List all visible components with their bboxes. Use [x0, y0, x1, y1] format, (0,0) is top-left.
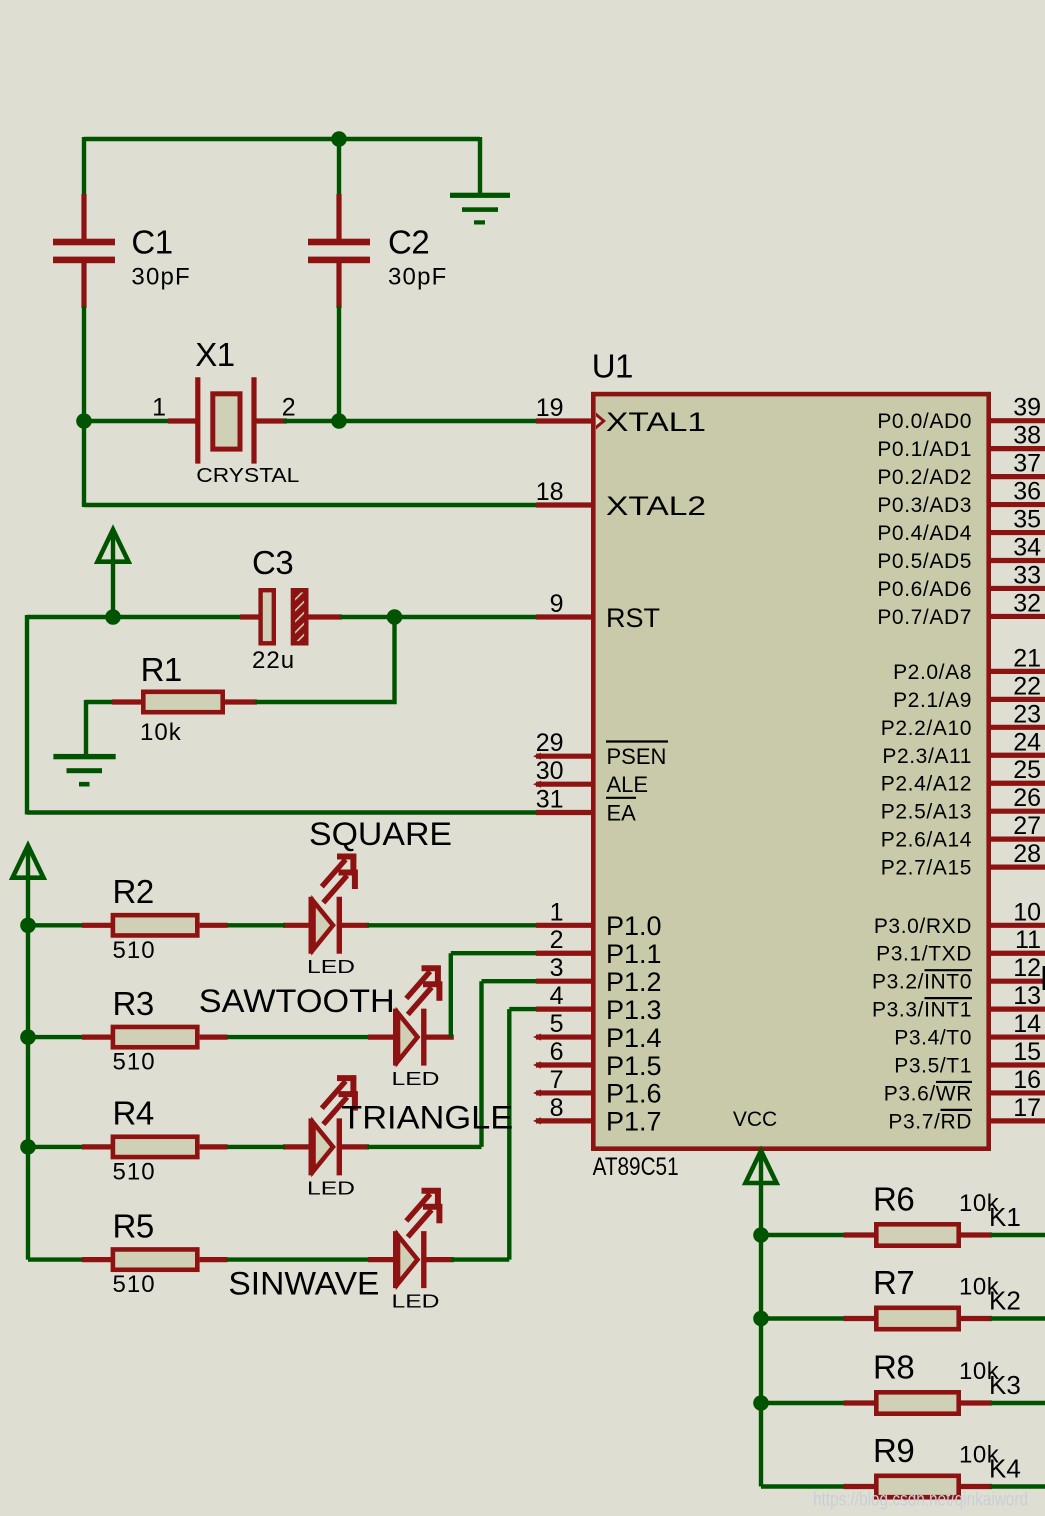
svg-text:P2.2/A10: P2.2/A10 — [881, 717, 972, 740]
svg-text:P0.5/AD5: P0.5/AD5 — [877, 550, 972, 573]
svg-text:14: 14 — [1013, 1010, 1041, 1038]
svg-text:P0.3/AD3: P0.3/AD3 — [877, 494, 972, 517]
svg-text:510: 510 — [113, 1049, 156, 1076]
svg-text:X1: X1 — [195, 336, 234, 373]
svg-text:35: 35 — [1013, 506, 1041, 534]
svg-text:P2.1/A9: P2.1/A9 — [893, 689, 972, 712]
svg-text:2: 2 — [550, 926, 564, 954]
svg-text:CRYSTAL: CRYSTAL — [196, 465, 299, 487]
svg-text:P1.2: P1.2 — [606, 967, 662, 997]
svg-text:XTAL1: XTAL1 — [606, 407, 706, 437]
svg-text:LED: LED — [307, 957, 355, 977]
svg-text:25: 25 — [1013, 756, 1041, 784]
svg-text:SQUARE: SQUARE — [309, 816, 452, 852]
svg-text:P3.3/INT1: P3.3/INT1 — [872, 999, 972, 1022]
svg-text:P0.1/AD1: P0.1/AD1 — [877, 438, 972, 461]
svg-text:P3.1/TXD: P3.1/TXD — [876, 943, 972, 966]
svg-text:SAWTOOTH: SAWTOOTH — [199, 983, 395, 1019]
svg-text:R4: R4 — [113, 1095, 154, 1132]
svg-text:23: 23 — [1013, 700, 1041, 728]
svg-text:27: 27 — [1013, 812, 1041, 840]
svg-text:R5: R5 — [113, 1207, 154, 1244]
svg-text:9: 9 — [550, 590, 564, 618]
svg-text:SINWAVE: SINWAVE — [228, 1266, 379, 1302]
svg-text:37: 37 — [1013, 450, 1041, 478]
svg-text:1: 1 — [152, 393, 166, 421]
svg-text:P3.0/RXD: P3.0/RXD — [874, 915, 972, 938]
svg-text:33: 33 — [1013, 561, 1041, 589]
svg-text:19: 19 — [536, 394, 564, 422]
svg-text:31: 31 — [536, 786, 564, 814]
svg-text:TRIANGLE: TRIANGLE — [341, 1100, 513, 1136]
svg-text:38: 38 — [1013, 422, 1041, 450]
svg-text:P1.7: P1.7 — [606, 1107, 662, 1137]
svg-text:P0.0/AD0: P0.0/AD0 — [877, 410, 972, 433]
svg-text:36: 36 — [1013, 478, 1041, 506]
svg-text:P2.5/A13: P2.5/A13 — [881, 801, 972, 824]
svg-text:P1.6: P1.6 — [606, 1079, 662, 1109]
svg-text:P1.5: P1.5 — [606, 1051, 662, 1081]
svg-text:https://blog.csdn.net/qinkaiwo: https://blog.csdn.net/qinkaiword — [813, 1490, 1028, 1511]
svg-text:P3.5/T1: P3.5/T1 — [894, 1055, 972, 1078]
svg-text:P2.7/A15: P2.7/A15 — [881, 857, 972, 880]
svg-text:7: 7 — [550, 1066, 564, 1094]
svg-text:P3.6/WR: P3.6/WR — [884, 1082, 972, 1105]
svg-text:K1: K1 — [989, 1202, 1021, 1232]
svg-text:P1.1: P1.1 — [606, 939, 662, 969]
svg-text:P1.0: P1.0 — [606, 911, 662, 941]
svg-text:ALE: ALE — [607, 772, 649, 797]
svg-text:39: 39 — [1013, 394, 1041, 422]
svg-text:16: 16 — [1013, 1066, 1041, 1094]
svg-text:C2: C2 — [388, 224, 429, 261]
svg-text:28: 28 — [1013, 840, 1041, 868]
svg-text:AT89C51: AT89C51 — [593, 1153, 679, 1181]
svg-text:C3: C3 — [252, 544, 293, 581]
svg-text:510: 510 — [113, 937, 156, 964]
svg-text:P1.3: P1.3 — [606, 995, 662, 1025]
svg-text:R1: R1 — [141, 651, 182, 688]
svg-text:P2.4/A12: P2.4/A12 — [881, 773, 972, 796]
svg-text:12: 12 — [1013, 954, 1041, 982]
svg-text:C1: C1 — [131, 224, 172, 261]
svg-text:P0.7/AD7: P0.7/AD7 — [877, 606, 972, 629]
svg-text:17: 17 — [1013, 1094, 1041, 1122]
svg-text:R9: R9 — [873, 1432, 914, 1469]
svg-text:P1.4: P1.4 — [606, 1023, 662, 1053]
svg-text:4: 4 — [550, 982, 564, 1010]
svg-text:VCC: VCC — [733, 1108, 777, 1131]
svg-text:LED: LED — [307, 1179, 355, 1199]
svg-text:30pF: 30pF — [388, 263, 448, 290]
svg-text:P0.6/AD6: P0.6/AD6 — [877, 578, 972, 601]
svg-text:PSEN: PSEN — [607, 744, 667, 769]
svg-text:22u: 22u — [252, 647, 295, 674]
svg-text:1: 1 — [550, 898, 564, 926]
svg-text:32: 32 — [1013, 589, 1041, 617]
svg-text:30: 30 — [536, 757, 564, 785]
svg-text:R2: R2 — [113, 873, 154, 910]
svg-text:K4: K4 — [989, 1454, 1021, 1484]
svg-text:22: 22 — [1013, 672, 1041, 700]
svg-text:P2.6/A14: P2.6/A14 — [881, 829, 972, 852]
svg-text:LED: LED — [392, 1069, 440, 1089]
svg-text:P2.3/A11: P2.3/A11 — [882, 745, 972, 768]
svg-text:RST: RST — [606, 603, 660, 633]
svg-text:K3: K3 — [989, 1370, 1021, 1400]
svg-text:30pF: 30pF — [131, 263, 191, 290]
svg-text:13: 13 — [1013, 982, 1041, 1010]
svg-text:18: 18 — [536, 478, 564, 506]
svg-text:P3.4/T0: P3.4/T0 — [894, 1027, 972, 1050]
svg-text:P3.7/RD: P3.7/RD — [888, 1110, 972, 1133]
svg-text:XTAL2: XTAL2 — [606, 491, 706, 521]
svg-text:R8: R8 — [873, 1349, 914, 1386]
svg-text:P3.2/INT0: P3.2/INT0 — [872, 971, 972, 994]
svg-text:8: 8 — [550, 1094, 564, 1122]
svg-text:R3: R3 — [113, 985, 154, 1022]
svg-text:P0.2/AD2: P0.2/AD2 — [877, 466, 972, 489]
svg-text:P0.4/AD4: P0.4/AD4 — [877, 522, 972, 545]
svg-text:R7: R7 — [873, 1264, 914, 1301]
svg-text:10: 10 — [1013, 898, 1041, 926]
svg-text:21: 21 — [1013, 644, 1041, 672]
svg-text:34: 34 — [1013, 534, 1041, 562]
svg-text:LED: LED — [392, 1292, 440, 1312]
svg-text:2: 2 — [282, 393, 296, 421]
svg-text:U1: U1 — [592, 348, 633, 385]
svg-text:15: 15 — [1013, 1038, 1041, 1066]
svg-text:510: 510 — [113, 1271, 156, 1298]
svg-text:26: 26 — [1013, 784, 1041, 812]
svg-text:29: 29 — [536, 729, 564, 757]
svg-text:R6: R6 — [873, 1181, 914, 1218]
svg-text:3: 3 — [550, 954, 564, 982]
svg-text:24: 24 — [1013, 728, 1041, 756]
svg-text:5: 5 — [550, 1010, 564, 1038]
svg-text:11: 11 — [1015, 926, 1041, 954]
svg-text:510: 510 — [113, 1158, 156, 1185]
svg-text:6: 6 — [550, 1038, 564, 1066]
svg-text:10k: 10k — [140, 719, 182, 746]
svg-text:K2: K2 — [989, 1286, 1021, 1316]
svg-text:EA: EA — [607, 801, 637, 826]
svg-text:P2.0/A8: P2.0/A8 — [893, 661, 972, 684]
